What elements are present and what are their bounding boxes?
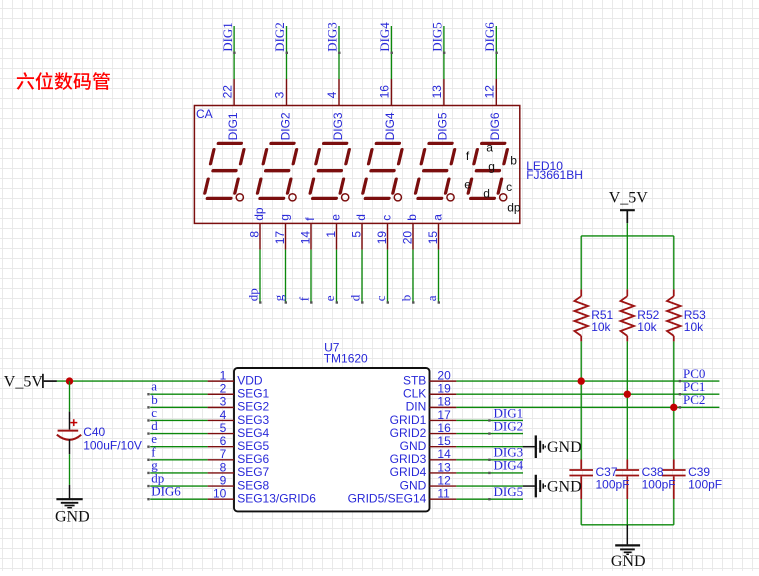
svg-text:22: 22 [220,85,234,99]
svg-text:10k: 10k [637,320,657,334]
svg-text:GRID2: GRID2 [390,426,427,440]
svg-text:13: 13 [430,85,444,99]
svg-text:8: 8 [247,231,261,238]
svg-text:DIG5: DIG5 [436,112,450,140]
svg-text:STB: STB [403,373,426,387]
svg-text:DIG3: DIG3 [325,22,340,52]
svg-text:DIG5: DIG5 [430,22,445,52]
svg-text:a: a [430,214,444,221]
svg-text:14: 14 [298,231,312,245]
svg-text:DIG1: DIG1 [226,112,240,140]
svg-text:16: 16 [437,421,451,435]
svg-text:SEG13/GRID6: SEG13/GRID6 [237,491,316,505]
svg-text:e: e [322,295,337,301]
svg-text:SEG3: SEG3 [237,413,269,427]
svg-text:DIG2: DIG2 [494,418,524,433]
svg-text:a: a [424,295,439,301]
svg-text:DIN: DIN [406,400,427,414]
svg-text:GND: GND [547,439,582,456]
svg-text:GRID5/SEG14: GRID5/SEG14 [348,491,427,505]
svg-text:19: 19 [375,231,389,245]
svg-text:GND: GND [400,478,427,492]
svg-text:10k: 10k [684,320,704,334]
svg-text:17: 17 [273,231,287,245]
svg-text:20: 20 [400,231,414,245]
svg-text:SEG6: SEG6 [237,452,269,466]
svg-text:15: 15 [437,434,451,448]
svg-text:1: 1 [220,369,227,383]
svg-text:PC2: PC2 [683,392,705,407]
svg-text:9: 9 [220,473,227,487]
svg-text:DIG2: DIG2 [278,112,292,140]
svg-text:100pF: 100pF [596,477,630,491]
svg-text:b: b [405,214,419,221]
svg-text:11: 11 [437,487,450,501]
svg-text:4: 4 [220,408,227,422]
svg-text:TM1620: TM1620 [324,352,368,366]
svg-text:DIG6: DIG6 [482,22,497,52]
svg-text:b: b [510,154,517,168]
svg-text:c: c [506,180,512,194]
svg-text:3: 3 [273,91,287,98]
svg-text:12: 12 [437,473,451,487]
svg-text:e: e [464,178,471,192]
svg-text:SEG4: SEG4 [237,426,269,440]
svg-text:DIG2: DIG2 [272,22,287,52]
svg-text:DIG1: DIG1 [220,22,235,52]
svg-text:SEG8: SEG8 [237,478,269,492]
svg-text:DIG3: DIG3 [331,112,345,140]
svg-text:dp: dp [507,200,521,214]
svg-text:g: g [488,159,495,173]
svg-text:14: 14 [437,447,451,461]
svg-text:dp: dp [252,207,266,221]
svg-text:dp: dp [245,288,260,301]
svg-text:GRID4: GRID4 [390,465,427,479]
svg-text:c: c [373,295,388,301]
svg-text:1: 1 [324,231,338,238]
svg-text:CLK: CLK [403,387,426,401]
svg-text:DIG4: DIG4 [383,112,397,140]
svg-text:10k: 10k [591,320,611,334]
svg-text:15: 15 [426,231,440,245]
svg-text:DIG6: DIG6 [151,484,181,499]
svg-text:5: 5 [220,421,227,435]
svg-text:d: d [347,294,362,301]
svg-text:DIG4: DIG4 [494,458,524,473]
svg-text:GRID1: GRID1 [390,413,427,427]
svg-text:3: 3 [220,395,227,409]
svg-text:12: 12 [483,85,497,99]
svg-text:SEG5: SEG5 [237,439,269,453]
svg-text:DIG4: DIG4 [377,22,392,52]
svg-text:GND: GND [611,553,646,570]
svg-text:e: e [328,214,342,221]
svg-text:b: b [398,295,413,302]
svg-text:f: f [296,296,311,301]
svg-text:g: g [277,214,291,221]
svg-text:7: 7 [220,447,227,461]
svg-text:SEG7: SEG7 [237,465,269,479]
svg-text:V_5V: V_5V [4,374,44,391]
svg-text:20: 20 [437,369,451,383]
svg-text:GND: GND [547,478,582,495]
svg-text:c: c [379,215,393,221]
svg-text:FJ3661BH: FJ3661BH [526,168,583,182]
svg-text:DIG6: DIG6 [488,112,502,140]
svg-text:6: 6 [220,434,227,448]
svg-text:4: 4 [325,91,339,98]
svg-text:V_5V: V_5V [609,189,649,206]
svg-text:GND: GND [400,439,427,453]
svg-text:SEG1: SEG1 [237,387,269,401]
svg-text:VDD: VDD [237,373,263,387]
svg-text:100uF/10V: 100uF/10V [83,439,142,453]
svg-text:SEG2: SEG2 [237,400,269,414]
svg-text:C40: C40 [83,425,105,439]
svg-text:16: 16 [378,85,392,99]
svg-text:2: 2 [220,382,227,396]
svg-text:17: 17 [437,408,451,422]
svg-text:GRID3: GRID3 [390,452,427,466]
svg-text:d: d [354,214,368,221]
svg-text:a: a [486,140,493,154]
svg-text:CA: CA [196,107,213,121]
svg-text:g: g [271,294,286,301]
svg-text:100pF: 100pF [688,477,722,491]
svg-text:100pF: 100pF [642,477,676,491]
svg-text:10: 10 [213,487,227,501]
svg-text:d: d [483,187,490,201]
svg-text:18: 18 [437,395,451,409]
svg-text:5: 5 [349,231,363,238]
svg-text:8: 8 [220,460,227,474]
svg-text:GND: GND [55,508,90,525]
svg-text:13: 13 [437,460,451,474]
svg-text:19: 19 [437,382,451,396]
